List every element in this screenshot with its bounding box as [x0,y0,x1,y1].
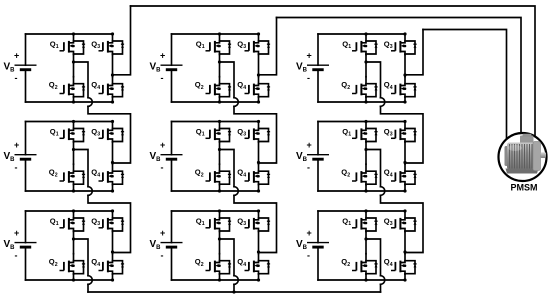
wire left leg mid cell11 [73,55,75,77]
wire left edge upper cell33 [317,211,319,243]
node junction dots cell31 [72,209,75,212]
wire left edge upper cell13 [317,34,319,65]
transistor Q2 cell23 [352,164,378,185]
wire left edge upper cell11 [25,34,27,65]
wire bottom rail cell33 [318,279,405,281]
wire top rail cell31 [26,210,113,212]
battery VB cell32 [161,243,183,248]
wire right leg bottom cell11 [112,97,114,102]
wire left edge upper cell21 [25,122,27,155]
wire hop over bottom rail cell22 [234,187,238,196]
wire left edge upper cell12 [171,34,173,65]
wire output A tap cell23 [366,150,381,187]
battery VB cell12 [161,65,183,70]
wire left edge upper cell32 [171,211,173,243]
wire bottom rail cell11 [26,101,113,103]
wire bottom rail cell13 [318,101,405,103]
wire output A tap cell13 [366,62,381,98]
svg-text:+: + [307,51,312,61]
wire drop to neutral bus col3 [380,284,382,292]
svg-text:+: + [160,51,165,61]
wire right leg bottom cell31 [112,274,114,280]
wire hop over bottom rail cell33 [381,276,385,285]
wire connector to row2 B tap col1 [88,106,131,163]
wire top rail cell13 [318,33,405,35]
wire output A tap cell22 [220,150,235,187]
wire output A tap cell12 [220,62,235,98]
node junction dots cell23 [364,120,367,123]
transistor Q3 cell13 [391,34,417,55]
wire left edge lower cell22 [171,159,173,191]
battery VB cell33 [307,243,329,248]
wire top rail cell32 [172,210,259,212]
wire bottom rail cell21 [26,190,113,192]
wire right leg mid cell21 [112,142,114,164]
transistor Q1 cell21 [60,122,86,143]
transistor Q2 cell22 [206,164,232,185]
wire left leg bottom cell12 [219,97,221,102]
svg-text:-: - [307,73,310,83]
svg-text:-: - [15,250,18,260]
node junction dots cell33 [364,209,367,212]
wire left edge lower cell21 [25,159,27,191]
transistor Q2 cell21 [60,164,86,185]
wire left leg mid cell12 [219,55,221,77]
wire top rail cell11 [26,33,113,35]
node junction dots cell22 [218,120,221,123]
wire output B tap to phase col1 [113,6,131,75]
transistor Q3 cell31 [99,211,125,232]
svg-text:+: + [14,51,19,61]
wire right leg bottom cell21 [112,185,114,191]
transistor Q2 cell11 [60,77,86,98]
svg-text:-: - [307,250,310,260]
wire left edge upper cell22 [171,122,173,155]
transistor Q4 cell21 [99,164,125,185]
wire left leg mid cell32 [219,232,221,254]
transistor Q3 cell23 [391,122,417,143]
battery VB cell31 [15,243,37,248]
wire bottom rail cell31 [26,279,113,281]
wire neutral bus [88,291,381,293]
transistor Q1 cell11 [60,34,86,55]
wire output B tap to phase col3 [405,30,423,75]
wire left leg mid cell31 [73,232,75,254]
wire connector to row3 B tap col3 [381,195,424,252]
wire left edge lower cell11 [25,70,27,102]
motor PMSM circle [499,133,547,181]
wire connector to row2 B tap col2 [234,106,277,163]
wire right leg bottom cell12 [258,97,260,102]
wire left leg bottom cell23 [365,185,367,191]
transistor Q1 cell31 [60,211,86,232]
wire phase 2 to motor [277,18,522,141]
wire connector to row3 B tap col2 [234,195,277,252]
wire right leg mid cell11 [112,55,114,77]
battery VB cell21 [15,155,37,160]
wire right leg bottom cell23 [404,185,406,191]
wire right leg mid cell13 [404,55,406,77]
wire hop over bottom rail cell23 [381,187,385,196]
transistor Q1 cell32 [206,211,232,232]
wire right leg bottom cell33 [404,274,406,280]
wire hop over bottom rail cell21 [88,187,92,196]
wire hop over bottom rail cell13 [381,98,385,107]
wire left leg bottom cell13 [365,97,367,102]
wire left leg bottom cell31 [73,274,75,280]
svg-text:PMSM: PMSM [511,183,538,193]
battery VB cell11 [15,65,37,70]
transistor Q4 cell11 [99,77,125,98]
transistor Q2 cell12 [206,77,232,98]
svg-text:+: + [160,228,165,238]
wire top rail cell12 [172,33,259,35]
transistor Q4 cell32 [245,254,271,275]
transistor Q3 cell21 [99,122,125,143]
transistor Q3 cell11 [99,34,125,55]
wire output A tap cell11 [74,62,89,98]
transistor Q1 cell13 [352,34,378,55]
battery VB cell13 [307,65,329,70]
wire output A tap cell32 [220,239,235,276]
transistor Q2 cell32 [206,254,232,275]
transistor Q4 cell22 [245,164,271,185]
wire left leg bottom cell32 [219,274,221,280]
wire drop to neutral bus col1 [87,284,89,292]
transistor Q1 cell33 [352,211,378,232]
wire top rail cell23 [318,121,405,123]
wire phase 3 to motor [423,30,507,141]
wire left edge lower cell12 [171,70,173,102]
wire left edge upper cell23 [317,122,319,155]
svg-text:+: + [14,228,19,238]
svg-text:-: - [161,163,164,173]
wire left edge lower cell31 [25,247,27,280]
svg-text:+: + [307,228,312,238]
transistor Q3 cell12 [245,34,271,55]
node bus junction col2 [232,290,235,293]
wire output A tap cell21 [74,150,89,187]
wire left leg bottom cell22 [219,185,221,191]
node junction dots cell11 [72,32,75,35]
wire left leg bottom cell21 [73,185,75,191]
wire bottom rail cell23 [318,190,405,192]
transistor Q1 cell23 [352,122,378,143]
wire connector to row3 B tap col1 [88,195,131,252]
wire top rail cell22 [172,121,259,123]
wire output A tap cell33 [366,239,381,276]
wire left leg mid cell33 [365,232,367,254]
wire bottom rail cell12 [172,101,259,103]
svg-text:+: + [160,140,165,150]
wire output B tap to phase col2 [259,18,277,75]
wire left edge lower cell13 [317,70,319,102]
wire right leg mid cell31 [112,232,114,254]
wire top rail cell21 [26,121,113,123]
transistor Q3 cell33 [391,211,417,232]
wire left edge lower cell23 [317,159,319,191]
svg-text:-: - [161,250,164,260]
wire top rail cell33 [318,210,405,212]
wire hop over bottom rail cell32 [234,276,238,285]
wire connector to row2 B tap col3 [381,106,424,163]
motor PMSM body art [520,136,534,145]
wire output A tap cell31 [74,239,89,276]
wire hop over bottom rail cell12 [234,98,238,107]
wire phase 1 to motor [131,6,536,140]
wire left edge lower cell33 [317,247,319,280]
wire bottom rail cell22 [172,190,259,192]
svg-text:-: - [15,73,18,83]
node junction dots cell12 [218,32,221,35]
transistor Q4 cell13 [391,77,417,98]
wire left edge lower cell32 [171,247,173,280]
wire left leg mid cell13 [365,55,367,77]
wire hop over bottom rail cell31 [88,276,92,285]
wire left edge upper cell31 [25,211,27,243]
wire left leg bottom cell11 [73,97,75,102]
transistor Q2 cell13 [352,77,378,98]
transistor Q3 cell22 [245,122,271,143]
svg-text:+: + [307,140,312,150]
battery VB cell23 [307,155,329,160]
transistor Q2 cell33 [352,254,378,275]
wire left leg mid cell21 [73,142,75,164]
node junction dots cell13 [364,32,367,35]
transistor Q4 cell31 [99,254,125,275]
transistor Q1 cell22 [206,122,232,143]
battery VB cell22 [161,155,183,160]
wire hop over bottom rail cell11 [88,98,92,107]
wire left leg bottom cell33 [365,274,367,280]
transistor Q3 cell32 [245,211,271,232]
wire right leg bottom cell22 [258,185,260,191]
wire right leg mid cell32 [258,232,260,254]
transistor Q4 cell33 [391,254,417,275]
svg-text:-: - [307,163,310,173]
node junction dots cell21 [72,120,75,123]
wire left leg mid cell22 [219,142,221,164]
transistor Q2 cell31 [60,254,86,275]
transistor Q4 cell12 [245,77,271,98]
wire right leg bottom cell32 [258,274,260,280]
wire right leg mid cell22 [258,142,260,164]
wire right leg mid cell12 [258,55,260,77]
node junction dots cell32 [218,209,221,212]
svg-text:-: - [161,73,164,83]
wire right leg mid cell33 [404,232,406,254]
svg-text:-: - [15,163,18,173]
transistor Q1 cell12 [206,34,232,55]
wire right leg bottom cell13 [404,97,406,102]
wire left leg mid cell23 [365,142,367,164]
wire bottom rail cell32 [172,279,259,281]
transistor Q4 cell23 [391,164,417,185]
wire drop to neutral bus col2 [233,284,235,292]
svg-text:+: + [14,140,19,150]
wire right leg mid cell23 [404,142,406,164]
